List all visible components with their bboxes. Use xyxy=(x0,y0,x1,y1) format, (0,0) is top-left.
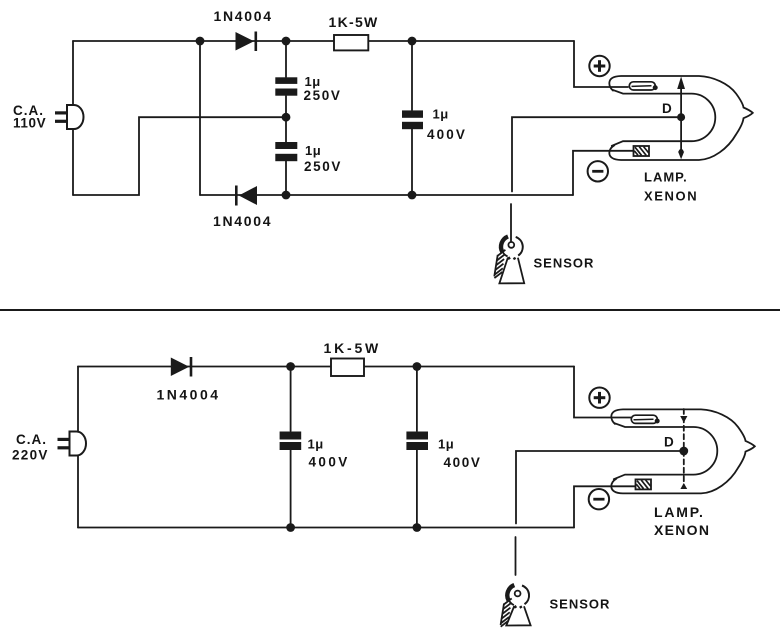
node E xyxy=(408,37,417,46)
wire to minus electrode xyxy=(573,151,634,195)
svg-text:SENSOR: SENSOR xyxy=(534,256,595,271)
wire bottom rail 2 xyxy=(78,527,574,529)
lamp xenon top xyxy=(609,76,753,160)
node B xyxy=(282,37,291,46)
svg-text:1μ: 1μ xyxy=(305,143,321,158)
svg-text:1N4004: 1N4004 xyxy=(213,213,272,229)
separator line xyxy=(0,309,780,311)
resistor R2 1K-5W xyxy=(331,359,364,377)
node top junction A xyxy=(196,37,205,46)
wire to plus electrode xyxy=(574,41,628,87)
svg-text:250V: 250V xyxy=(304,88,342,103)
svg-text:LAMP.: LAMP. xyxy=(654,504,705,520)
svg-text:400V: 400V xyxy=(444,455,482,470)
node C midpoint xyxy=(282,113,291,122)
node D trigger 2 xyxy=(679,447,688,456)
wire trigger horizontal 2 xyxy=(516,451,684,524)
capacitor C2 plates xyxy=(275,142,297,149)
svg-text:220V: 220V xyxy=(12,448,49,463)
trigger line with arrows xyxy=(680,89,682,153)
svg-text:400V: 400V xyxy=(309,455,350,470)
svg-text:250V: 250V xyxy=(304,159,342,174)
wire top rail 2 xyxy=(78,366,574,368)
svg-text:1N4004: 1N4004 xyxy=(214,8,273,24)
svg-text:110V: 110V xyxy=(13,116,46,131)
wire plug return bottom xyxy=(73,117,286,195)
node F xyxy=(408,191,417,200)
plus terminal 2 xyxy=(589,388,609,408)
resistor R1 1K-5W xyxy=(334,35,368,50)
plug AC 110V xyxy=(55,105,84,129)
wire bridge vertical xyxy=(199,41,201,195)
minus terminal 2 xyxy=(589,489,609,509)
capacitor C5 plates xyxy=(406,432,428,440)
wire to plus electrode 2 xyxy=(574,367,632,418)
svg-text:1μ: 1μ xyxy=(433,107,449,122)
wire trigger horizontal xyxy=(512,117,681,191)
svg-text:1μ: 1μ xyxy=(308,437,324,452)
svg-text:400V: 400V xyxy=(427,127,467,142)
diode D3 1N4004 xyxy=(171,358,189,377)
wire left vertical xyxy=(72,41,74,195)
svg-text:1K-5W: 1K-5W xyxy=(324,340,382,356)
plug AC 220V xyxy=(58,432,87,456)
capacitor C3 plates xyxy=(402,110,423,117)
sensor top xyxy=(494,237,524,284)
diode D1 1N4004 xyxy=(236,32,255,51)
wire to minus electrode 2 xyxy=(574,486,636,527)
svg-text:1μ: 1μ xyxy=(438,437,454,452)
capacitor C4 plates xyxy=(280,432,302,440)
minus terminal xyxy=(588,161,608,181)
capacitor C1 plates xyxy=(275,77,297,84)
lamp xenon bottom xyxy=(611,409,755,493)
svg-text:D: D xyxy=(662,101,672,116)
node H xyxy=(413,362,422,371)
wire bottom rail xyxy=(200,194,573,196)
wire left vertical 2 xyxy=(77,367,79,528)
svg-text:SENSOR: SENSOR xyxy=(550,597,611,612)
svg-text:C.A.: C.A. xyxy=(16,432,47,447)
wire sensor drop 2 xyxy=(515,537,517,575)
sensor bottom xyxy=(501,585,531,627)
svg-text:XENON: XENON xyxy=(644,189,698,204)
svg-text:1N4004: 1N4004 xyxy=(157,387,221,403)
node D trigger xyxy=(677,113,685,121)
node G xyxy=(286,362,295,371)
diode D2 1N4004 xyxy=(239,186,257,205)
trigger line 2 dashed xyxy=(683,409,685,488)
wire sensor drop xyxy=(510,204,512,242)
svg-text:D: D xyxy=(664,435,674,450)
node J xyxy=(413,523,422,532)
wire top rail xyxy=(73,40,574,42)
node C2-D2 junction xyxy=(282,191,291,200)
plus terminal xyxy=(589,56,609,76)
svg-text:1μ: 1μ xyxy=(305,74,321,89)
svg-text:LAMP.: LAMP. xyxy=(644,170,688,185)
svg-text:1K-5W: 1K-5W xyxy=(329,14,379,30)
svg-text:XENON: XENON xyxy=(654,522,710,538)
node I xyxy=(286,523,295,532)
